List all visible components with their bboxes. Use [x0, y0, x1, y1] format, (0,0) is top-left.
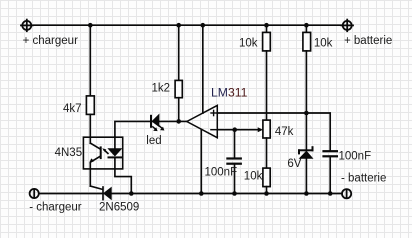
terminal + batterie: [341, 20, 353, 32]
wire 4k7 to optocoupler collector: [89, 114, 91, 143]
svg-text:1k2: 1k2: [152, 83, 171, 95]
svg-text:47k: 47k: [275, 126, 294, 138]
wire 4k7 column top: [89, 25, 91, 96]
47k wiper arrowhead: [258, 127, 263, 132]
wire 10k reference column: [305, 25, 307, 32]
junction bottom rail C2: [328, 191, 333, 196]
wire 1k2 column top: [178, 25, 180, 80]
junction top rail R4: [304, 23, 309, 28]
wire optocoupler emitter to gate: [90, 162, 102, 189]
svg-text:4k7: 4k7: [63, 103, 82, 115]
svg-text:4N35: 4N35: [55, 147, 83, 159]
svg-text:led: led: [146, 135, 161, 147]
led D1: [151, 115, 164, 131]
thyristor Q1 2N6509: [103, 187, 111, 200]
wire bottom rail left: [39, 193, 103, 195]
zener D2 6V: [299, 113, 313, 194]
wire R6 to bottom rail: [266, 187, 268, 194]
optocoupler U1 4N35: [83, 137, 122, 169]
resistor R1 4k7: [86, 96, 94, 115]
junction bottom rail zener: [304, 191, 309, 196]
wire output node to opto led anode: [115, 121, 187, 137]
terminal - chargeur: [30, 189, 39, 198]
junction bottom rail led cathode: [129, 191, 134, 196]
svg-text:- batterie: - batterie: [341, 172, 386, 184]
potentiometer R5 47k: [263, 120, 270, 138]
terminal + chargeur: [21, 20, 33, 32]
wire inverting input to 47k wiper: [217, 129, 260, 131]
terminal - batterie: [342, 189, 351, 198]
wire LM311 V- to bottom rail: [200, 130, 202, 194]
svg-text:2N6509: 2N6509: [99, 202, 139, 214]
wire bottom rail right: [111, 193, 342, 195]
svg-text:100nF: 100nF: [339, 151, 372, 163]
svg-text:- chargeur: - chargeur: [29, 202, 82, 214]
junction top rail 4k7: [88, 23, 93, 28]
wire 10k divider column: [266, 25, 268, 32]
junction bottom rail R6: [264, 191, 269, 196]
junction top rail 1k2: [176, 23, 181, 28]
svg-text:100nF: 100nF: [205, 167, 238, 179]
svg-text:LM311: LM311: [211, 86, 248, 100]
svg-text:+ chargeur: + chargeur: [23, 35, 78, 47]
wire 1k2 to output node: [178, 98, 180, 122]
resistor R3 10k: [263, 32, 271, 51]
junction output node: [176, 119, 181, 124]
wire noninverting input net: [217, 113, 330, 151]
svg-text:6V: 6V: [287, 158, 301, 170]
resistor R2 1k2: [175, 80, 182, 97]
svg-text:10k: 10k: [239, 38, 258, 50]
capacitor C1 100nF: [227, 130, 240, 194]
wire R3 to divider node: [266, 51, 268, 120]
svg-text:10k: 10k: [244, 171, 263, 183]
wire 47k to 10k: [266, 138, 268, 168]
junction top rail LM311 V+: [201, 23, 206, 28]
junction bottom rail LM311 V-: [199, 191, 204, 196]
resistor R4 10k: [303, 32, 311, 51]
junction top rail R3: [264, 23, 269, 28]
junction noninverting divider node: [304, 111, 309, 116]
op-amp U2 LM311: [187, 105, 218, 137]
junction inverting node C1: [232, 127, 237, 132]
wire optocoupler led cathode to bottom rail: [115, 157, 131, 193]
resistor R6 10k: [263, 168, 270, 187]
wire LM311 V+: [202, 25, 204, 113]
junction bottom rail C1: [232, 191, 237, 196]
svg-text:10k: 10k: [314, 38, 333, 50]
wire top rail: [31, 24, 343, 26]
svg-text:+ batterie: + batterie: [344, 35, 392, 47]
capacitor C2 100nF: [324, 151, 337, 193]
wire R4 to reference node: [305, 51, 307, 113]
